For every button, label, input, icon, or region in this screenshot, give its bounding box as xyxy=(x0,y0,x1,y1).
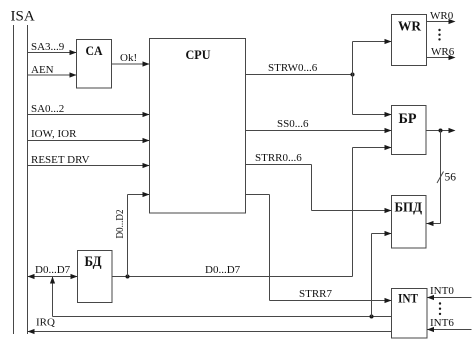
wire D0...D7 left segment (bidirectional) xyxy=(28,264,78,279)
svg-text:SA3...9: SA3...9 xyxy=(31,41,65,53)
wire vertical data to БПД xyxy=(371,234,373,317)
svg-text:IOW, IOR: IOW, IOR xyxy=(31,128,77,140)
svg-text:STRR0...6: STRR0...6 xyxy=(255,152,302,164)
svg-text:БР: БР xyxy=(399,111,417,127)
block CA xyxy=(77,40,112,89)
ISA bus line 1 xyxy=(13,25,15,334)
junction D0..D2 branch xyxy=(126,275,130,279)
block WR xyxy=(392,15,427,66)
svg-text:CA: CA xyxy=(86,43,104,58)
svg-text:SA0...2: SA0...2 xyxy=(31,103,64,115)
dots INT inputs xyxy=(439,302,441,315)
svg-text:INT6: INT6 xyxy=(430,317,454,329)
wire SA0...2 xyxy=(28,103,150,117)
wire D0...D7 right segment xyxy=(112,264,353,277)
wire vertical to WR and БР xyxy=(352,42,354,115)
wire БР output xyxy=(426,128,456,133)
svg-text:INT: INT xyxy=(398,291,418,306)
svg-text:WR: WR xyxy=(398,20,422,35)
wire Ok! xyxy=(112,52,150,67)
bus width slash 56 xyxy=(437,172,456,184)
wire vertical STRR to БПД xyxy=(311,165,313,211)
wire vertical data branch from D0..D7 xyxy=(50,277,55,317)
junction БР output branch xyxy=(439,129,443,133)
svg-text:IRQ: IRQ xyxy=(36,317,55,329)
wire IRQ xyxy=(28,317,392,335)
wire vertical D0..D2 xyxy=(127,195,129,277)
wire STRR7 xyxy=(270,288,392,303)
wire RESET DRV xyxy=(28,154,150,168)
svg-text:STRW0...6: STRW0...6 xyxy=(268,62,318,74)
wire IOW, IOR xyxy=(28,128,150,143)
svg-text:STRR7: STRR7 xyxy=(299,288,333,300)
wire vertical D0..D7 to БР xyxy=(352,148,354,277)
block БД xyxy=(78,251,113,303)
svg-text:WR6: WR6 xyxy=(431,46,455,58)
svg-text:AEN: AEN xyxy=(31,64,54,76)
junction data/БПД branch xyxy=(370,315,374,319)
wire STRR0...6 xyxy=(246,152,312,165)
wire into БПД input 2 xyxy=(372,231,392,236)
wire INT6 input xyxy=(427,317,472,332)
svg-text:БД: БД xyxy=(85,254,103,270)
svg-text:SS0...6: SS0...6 xyxy=(277,118,309,130)
wire vertical STRR7 xyxy=(269,195,271,301)
dots WR outputs xyxy=(438,29,440,41)
wire into БР input 1 xyxy=(353,112,392,117)
junction STRW/vertical xyxy=(351,73,355,77)
svg-text:56: 56 xyxy=(445,172,457,184)
wire into БПД right xyxy=(427,221,441,226)
wire into WR xyxy=(353,39,392,44)
wire into БР input 3 xyxy=(353,145,392,150)
svg-text:WR0: WR0 xyxy=(430,10,454,22)
wire vertical БР to БПД xyxy=(440,131,442,224)
ISA bus line 2 xyxy=(27,25,29,334)
wire data to INT xyxy=(53,316,392,318)
wire WR0 output xyxy=(427,10,456,24)
svg-text:D0...D7: D0...D7 xyxy=(205,264,241,276)
svg-text:БПД: БПД xyxy=(395,201,423,216)
wire SA3...9 xyxy=(28,41,77,55)
wire INT0 input xyxy=(427,285,472,300)
svg-text:D0...D2: D0...D2 xyxy=(114,210,126,239)
svg-text:RESET DRV: RESET DRV xyxy=(31,154,90,166)
wire AEN xyxy=(28,64,77,78)
wire CPU lower output xyxy=(246,194,270,196)
svg-text:ISA: ISA xyxy=(11,9,35,25)
wire SS0...6 xyxy=(246,118,392,133)
wire WR6 output xyxy=(427,46,456,60)
wire STRW0...6 xyxy=(246,62,353,75)
wire into БПД input 1 xyxy=(312,208,392,213)
svg-text:INT0: INT0 xyxy=(430,285,454,297)
block БР xyxy=(392,106,427,155)
svg-text:D0...D7: D0...D7 xyxy=(35,264,71,276)
block CPU xyxy=(150,39,246,214)
block INT xyxy=(392,289,428,339)
svg-text:CPU: CPU xyxy=(186,47,212,62)
wire D0..D2 into CPU xyxy=(128,192,150,197)
block БПД xyxy=(392,196,427,249)
svg-text:Ok!: Ok! xyxy=(120,52,137,64)
